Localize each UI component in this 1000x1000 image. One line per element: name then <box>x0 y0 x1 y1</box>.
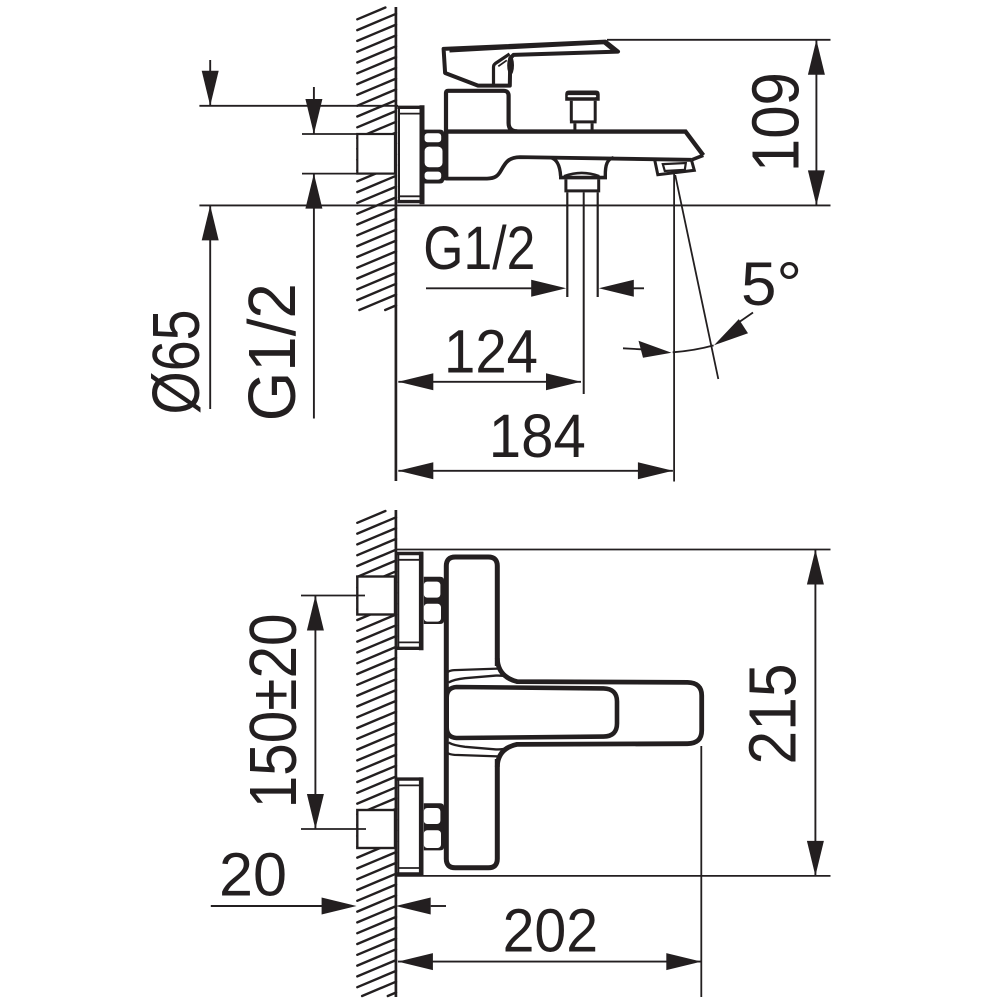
dim 202 <box>398 961 701 963</box>
aerator lens arc <box>564 173 599 176</box>
lever neck inner thin line <box>498 60 507 66</box>
nut bottom (front view) <box>424 803 444 850</box>
extension line stub bottom <box>302 173 357 175</box>
diverter stem <box>575 123 592 131</box>
svg-text:215: 215 <box>735 664 810 765</box>
shower outlet centerline <box>583 192 585 394</box>
spout outer shape (front view) <box>497 658 701 767</box>
extension line stub top <box>302 133 357 135</box>
spout bottom edge with S-curve (side view) <box>446 157 691 179</box>
5-deg slanted line <box>675 175 718 379</box>
dim 215 <box>814 550 816 876</box>
215 bottom extension line <box>397 875 831 877</box>
nut top (front view) <box>424 577 444 624</box>
shower outlet bump under spout <box>551 158 614 176</box>
dim 20 <box>211 905 322 907</box>
dim 109 <box>815 40 817 206</box>
svg-text:109: 109 <box>738 72 813 172</box>
shower thread line right <box>597 192 599 297</box>
diverter knob cap (side view) <box>565 91 600 101</box>
faucet body column (side view) <box>446 91 517 132</box>
escutcheon flange bottom (front view) <box>397 777 423 876</box>
diverter knob body <box>570 101 597 122</box>
svg-text:202: 202 <box>503 896 598 964</box>
shower hose connector <box>564 179 600 191</box>
escutcheon flange top (front view) <box>397 552 423 651</box>
supply stub top (front view) <box>357 577 395 615</box>
wall face line (bottom view) <box>395 510 398 997</box>
5-deg arc <box>673 345 714 352</box>
spout body top edge + right bevel (side view) <box>444 132 703 156</box>
svg-text:Ø65: Ø65 <box>139 310 214 415</box>
svg-text:20: 20 <box>219 840 287 908</box>
stub centerline bottom <box>301 828 366 830</box>
lever (front view) <box>447 687 617 738</box>
connection nut (side view) <box>424 130 444 184</box>
shower thread line left <box>566 192 568 297</box>
svg-text:184: 184 <box>489 402 586 470</box>
top extension line (O65) <box>199 105 398 107</box>
svg-text:5°: 5° <box>741 250 802 318</box>
202 right extension line <box>700 746 702 997</box>
5-deg vertical reference line <box>673 174 675 482</box>
spout outline thin bottom line (front view) <box>446 751 502 757</box>
dim O65 <box>209 60 211 409</box>
shower bump bottom edge <box>559 176 607 180</box>
lever top face inner line <box>450 43 614 51</box>
svg-text:124: 124 <box>444 318 538 386</box>
dim G1/2 (vertical, left) <box>313 87 315 419</box>
lever pivot pin <box>507 56 514 75</box>
stub centerline top <box>301 595 365 597</box>
lever handle (side view) <box>444 42 618 86</box>
wall face line (top view) <box>395 7 398 481</box>
215 top extension line <box>397 549 831 551</box>
supply stub bottom (front view) <box>357 810 395 848</box>
faucet body bar (front view) <box>446 557 497 868</box>
dim G1/2 (horizontal, shower outlet) <box>426 287 536 289</box>
svg-text:150±20: 150±20 <box>236 613 311 808</box>
5-deg arc left arrowhead <box>639 341 672 358</box>
escutcheon flange (side view) <box>398 105 424 204</box>
dim 150+-20 <box>314 596 316 830</box>
body left face edge <box>444 130 448 181</box>
spout thin top line B (front view) <box>449 676 517 683</box>
dim 124 <box>398 381 581 383</box>
outlet nub (side view) <box>655 160 695 175</box>
top extension line (109) <box>607 39 831 41</box>
spout thin bottom line B (front view) <box>449 743 517 750</box>
baseline under faucet <box>199 204 830 206</box>
svg-text:G1/2: G1/2 <box>235 283 310 421</box>
supply pipe stub behind wall (side view) <box>357 134 395 174</box>
outlet nub slot <box>663 163 686 171</box>
5-deg arc right arrowhead <box>714 319 748 345</box>
wall hatching (top view) <box>357 8 396 311</box>
dim 184 <box>398 470 673 472</box>
wall hatching (bottom view) <box>357 511 396 996</box>
spout outline thin top line (front view) <box>446 669 502 675</box>
svg-text:G1/2: G1/2 <box>423 214 535 282</box>
spout right end bottom <box>691 155 703 160</box>
lever neck front edge <box>494 54 510 84</box>
